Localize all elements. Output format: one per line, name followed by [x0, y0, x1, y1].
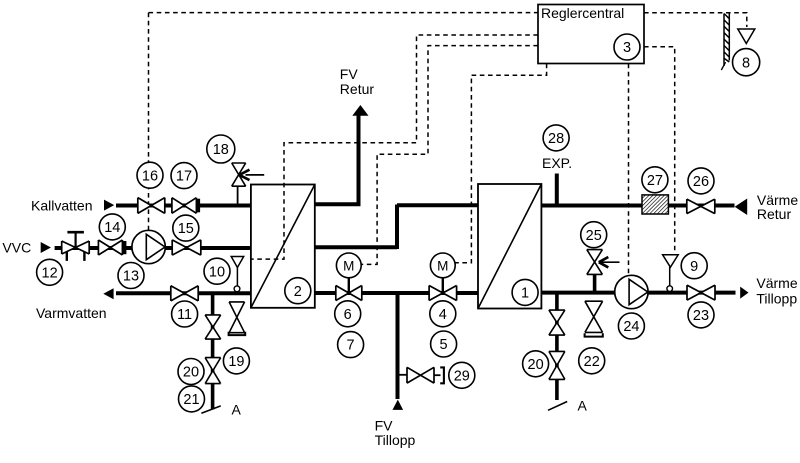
svg-text:27: 27	[647, 173, 663, 189]
svg-text:4: 4	[439, 307, 447, 323]
svg-text:18: 18	[213, 142, 229, 158]
svg-text:21: 21	[183, 392, 199, 408]
svg-text:M: M	[343, 258, 354, 273]
svg-text:FV: FV	[340, 66, 359, 82]
svg-text:13: 13	[123, 269, 139, 285]
svg-text:VVC: VVC	[2, 240, 31, 256]
svg-text:12: 12	[42, 265, 58, 281]
svg-text:Tillopp: Tillopp	[375, 432, 416, 448]
svg-text:24: 24	[623, 319, 639, 335]
svg-text:15: 15	[178, 221, 194, 237]
svg-text:A: A	[578, 397, 588, 413]
svg-text:26: 26	[693, 174, 709, 190]
svg-text:Värme: Värme	[756, 275, 797, 291]
svg-text:9: 9	[690, 259, 698, 275]
svg-text:A: A	[232, 402, 242, 418]
svg-text:3: 3	[623, 40, 631, 56]
svg-text:1: 1	[521, 286, 529, 302]
svg-text:11: 11	[177, 307, 192, 323]
svg-text:19: 19	[228, 354, 244, 370]
svg-text:Tillopp: Tillopp	[756, 290, 797, 306]
svg-text:17: 17	[176, 169, 192, 185]
svg-text:Retur: Retur	[757, 206, 792, 222]
svg-text:Reglercentral: Reglercentral	[541, 5, 624, 21]
svg-text:Kallvatten: Kallvatten	[31, 198, 92, 214]
svg-text:Varmvatten: Varmvatten	[36, 305, 107, 321]
svg-text:25: 25	[586, 228, 602, 244]
svg-text:14: 14	[104, 220, 120, 236]
svg-text:EXP.: EXP.	[542, 155, 572, 171]
svg-text:Retur: Retur	[340, 81, 375, 97]
svg-text:6: 6	[344, 307, 352, 323]
svg-text:M: M	[437, 258, 448, 273]
svg-text:20: 20	[528, 357, 544, 373]
svg-text:2: 2	[294, 284, 302, 300]
svg-text:20: 20	[183, 365, 199, 381]
svg-text:7: 7	[347, 338, 355, 354]
svg-text:28: 28	[548, 131, 564, 147]
svg-text:8: 8	[742, 55, 750, 71]
svg-text:23: 23	[693, 308, 709, 324]
svg-text:22: 22	[584, 354, 600, 370]
svg-text:29: 29	[454, 368, 470, 384]
svg-text:5: 5	[440, 337, 448, 353]
svg-text:16: 16	[142, 168, 158, 184]
svg-text:10: 10	[209, 264, 225, 280]
